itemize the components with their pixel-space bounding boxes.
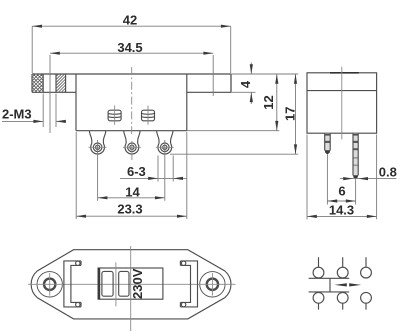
svg-text:230V: 230V — [130, 268, 145, 299]
svg-text:23.3: 23.3 — [117, 202, 142, 217]
svg-text:4: 4 — [238, 80, 253, 88]
svg-text:6-3: 6-3 — [127, 164, 146, 179]
svg-text:14: 14 — [125, 184, 140, 199]
svg-text:34.5: 34.5 — [117, 40, 142, 55]
svg-text:2-M3: 2-M3 — [2, 107, 32, 122]
svg-text:17: 17 — [283, 107, 298, 121]
svg-text:6: 6 — [338, 184, 345, 199]
svg-text:14.3: 14.3 — [329, 202, 354, 217]
svg-text:0.8: 0.8 — [379, 165, 397, 180]
svg-text:42: 42 — [123, 13, 137, 28]
svg-text:12: 12 — [261, 95, 276, 109]
